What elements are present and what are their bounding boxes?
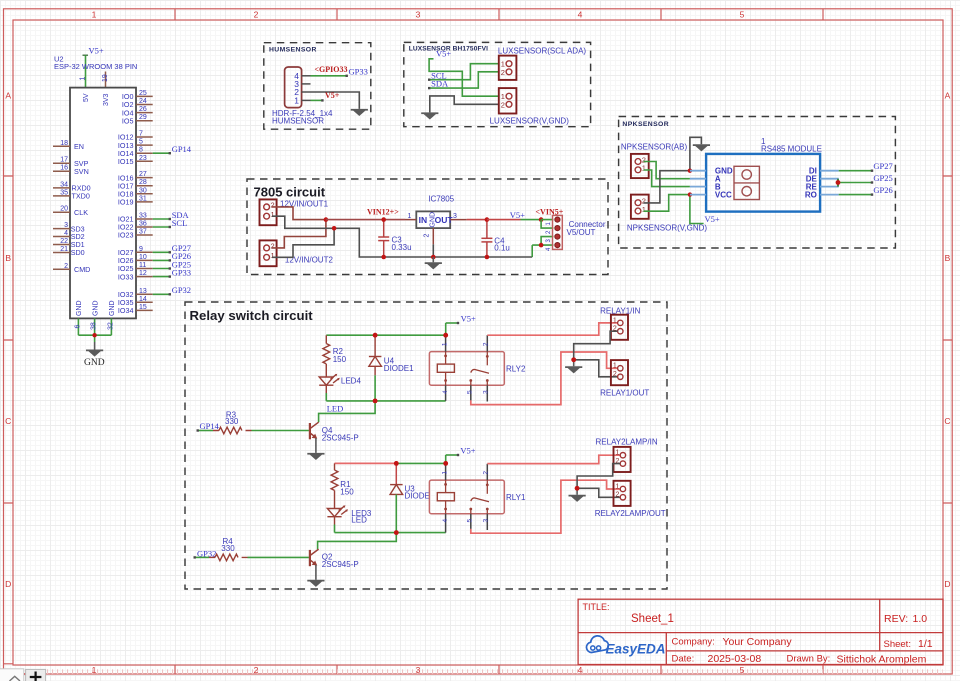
svg-text:8: 8 bbox=[139, 147, 143, 154]
svg-text:IO34: IO34 bbox=[118, 306, 134, 315]
svg-text:GP32: GP32 bbox=[172, 285, 191, 295]
gray wire IN pin2 to gnd junction bbox=[574, 331, 618, 360]
coil pin 4 bbox=[445, 501, 447, 514]
svg-text:Sheet_1: Sheet_1 bbox=[631, 613, 674, 625]
module right pin stubs bbox=[820, 171, 839, 195]
svg-text:26: 26 bbox=[139, 106, 147, 113]
ground symbol bbox=[576, 488, 578, 495]
wire LED4 to LED rail bbox=[325, 393, 327, 401]
svg-text:18: 18 bbox=[60, 140, 68, 147]
junction VCC row bbox=[688, 192, 692, 196]
connector NPKSENSOR(V,GND) bbox=[631, 195, 649, 219]
svg-text:IO15: IO15 bbox=[118, 157, 134, 166]
collector wire bbox=[319, 401, 376, 422]
svg-text:20: 20 bbox=[60, 206, 68, 213]
LED3 bbox=[327, 506, 347, 517]
transistor Q2 2SC945-P bbox=[310, 549, 319, 566]
svg-text:NPKSENSOR(V,GND): NPKSENSOR(V,GND) bbox=[627, 223, 708, 232]
svg-text:Date:: Date: bbox=[672, 654, 695, 665]
svg-text:HUMSENSOR: HUMSENSOR bbox=[272, 117, 324, 126]
svg-text:17: 17 bbox=[60, 157, 68, 164]
wire SCL to top conn pin1 bbox=[429, 64, 499, 80]
svg-text:2SC945-P: 2SC945-P bbox=[322, 433, 359, 442]
svg-text:LED4: LED4 bbox=[341, 377, 362, 386]
switch pin 3 bbox=[486, 508, 489, 511]
collector wire bbox=[318, 533, 397, 550]
svg-text:5V: 5V bbox=[83, 93, 90, 102]
svg-text:4: 4 bbox=[64, 230, 68, 237]
svg-text:22: 22 bbox=[60, 238, 68, 245]
wire C4 to V5 bbox=[487, 219, 521, 221]
svg-text:LUXSENSOR(V,GND): LUXSENSOR(V,GND) bbox=[490, 116, 570, 125]
svg-text:SVN: SVN bbox=[74, 167, 89, 176]
svg-text:GP25: GP25 bbox=[873, 173, 892, 183]
wire VGND pin1 to module VCC bbox=[644, 195, 690, 212]
svg-text:D: D bbox=[944, 579, 950, 589]
gray wire junction to OUT pin2 bbox=[574, 360, 618, 377]
right pins bbox=[136, 96, 153, 310]
svg-text:HUMSENSOR: HUMSENSOR bbox=[269, 46, 317, 53]
relay RLY2 bbox=[429, 335, 526, 401]
svg-text:SCL: SCL bbox=[172, 218, 188, 228]
svg-text:1: 1 bbox=[613, 363, 617, 370]
resistor R1 150 bbox=[331, 463, 338, 508]
module pin names bbox=[715, 167, 733, 200]
svg-text:Sheet:: Sheet: bbox=[884, 639, 911, 650]
svg-text:NPKSENSOR(AB): NPKSENSOR(AB) bbox=[621, 142, 688, 151]
svg-text:D: D bbox=[5, 579, 11, 589]
bottom connector LUXSENSOR(V,GND) bbox=[499, 88, 517, 113]
junction at conn V5/OUT pin1 bbox=[539, 217, 544, 222]
svg-text:4: 4 bbox=[442, 519, 449, 523]
RS485 module body bbox=[706, 154, 820, 212]
svg-text:12: 12 bbox=[139, 270, 147, 277]
bottom ruler dividers bbox=[175, 665, 823, 674]
connector 12V/IN/OUT2 bbox=[260, 240, 277, 266]
svg-text:GP14: GP14 bbox=[200, 421, 220, 431]
wire DI to GP27 bbox=[839, 170, 872, 172]
svg-text:GP33: GP33 bbox=[349, 66, 368, 76]
svg-text:RELAY2LAMP/OUT: RELAY2LAMP/OUT bbox=[595, 509, 666, 518]
svg-text:V5+: V5+ bbox=[705, 214, 720, 224]
svg-text:Drawn By:: Drawn By: bbox=[787, 654, 831, 665]
svg-text:13: 13 bbox=[139, 288, 147, 295]
junction re-marks bbox=[373, 333, 378, 338]
right pin numbers bbox=[139, 90, 147, 311]
wire conn1 pin1 to gnd rail bbox=[272, 216, 532, 257]
svg-text:10: 10 bbox=[139, 254, 147, 261]
svg-text:3: 3 bbox=[64, 222, 68, 229]
svg-text:V5/OUT: V5/OUT bbox=[567, 228, 596, 237]
svg-text:GP26: GP26 bbox=[873, 185, 892, 195]
right ruler dividers bbox=[943, 176, 952, 503]
svg-text:A: A bbox=[5, 91, 11, 101]
svg-text:RO: RO bbox=[805, 191, 817, 200]
bottom-left UI controls bbox=[0, 669, 46, 681]
switch pin 2 bbox=[486, 464, 488, 480]
dashed box bbox=[185, 302, 667, 589]
svg-text:3: 3 bbox=[482, 390, 489, 394]
svg-text:23: 23 bbox=[139, 155, 147, 162]
coil pin 1 bbox=[445, 463, 447, 480]
svg-text:2: 2 bbox=[482, 471, 489, 475]
dashed box bbox=[247, 179, 608, 275]
svg-text:Relay switch circuit: Relay switch circuit bbox=[190, 308, 314, 323]
svg-text:SDA: SDA bbox=[431, 79, 449, 89]
svg-text:LED: LED bbox=[351, 516, 367, 525]
svg-text:V5+: V5+ bbox=[510, 210, 525, 220]
svg-text:38: 38 bbox=[91, 322, 98, 330]
title block bbox=[578, 599, 943, 665]
svg-text:150: 150 bbox=[340, 487, 354, 496]
wire SDA to top conn pin2 bbox=[429, 72, 499, 88]
svg-text:1: 1 bbox=[294, 95, 299, 105]
svg-text:4: 4 bbox=[442, 390, 449, 394]
svg-text:GND: GND bbox=[92, 300, 99, 316]
wire IC pin3 to C4 bbox=[467, 219, 487, 221]
svg-text:21: 21 bbox=[60, 246, 68, 253]
wire RO to GP26 bbox=[839, 194, 872, 196]
svg-text:IO33: IO33 bbox=[118, 272, 134, 281]
top ruler dividers bbox=[175, 9, 823, 20]
red wire pin2 to RELAY2LAMP/IN bbox=[487, 455, 620, 463]
relay RLY1 bbox=[429, 463, 526, 532]
svg-text:1/1: 1/1 bbox=[918, 638, 933, 650]
svg-text:GP33: GP33 bbox=[172, 267, 191, 277]
svg-text:25: 25 bbox=[139, 90, 147, 97]
ground symbol bbox=[421, 112, 438, 119]
left ruler dividers bbox=[4, 176, 14, 664]
red wire pin5 to RELAY2LAMP/OUT bbox=[471, 480, 620, 533]
svg-text:LUXSENSOR(SCL ADA): LUXSENSOR(SCL ADA) bbox=[498, 47, 587, 56]
svg-text:330: 330 bbox=[221, 544, 235, 553]
wire conn1 pin2 to VIN rail bbox=[272, 207, 326, 220]
svg-text:V5+: V5+ bbox=[436, 48, 451, 58]
ground flag GND bbox=[84, 342, 105, 368]
IC pin 2 bbox=[432, 228, 434, 244]
svg-text:Company:: Company: bbox=[672, 637, 715, 648]
wire V5+ to bottom conn pin1 bbox=[429, 59, 499, 96]
svg-text:2: 2 bbox=[271, 242, 275, 251]
svg-text:TXD0: TXD0 bbox=[72, 192, 90, 201]
svg-text:1: 1 bbox=[616, 483, 620, 490]
EasyEDA logo bbox=[586, 636, 665, 657]
svg-text:30: 30 bbox=[139, 187, 147, 194]
svg-text:28: 28 bbox=[139, 179, 147, 186]
svg-text:<GPIO33: <GPIO33 bbox=[315, 65, 348, 74]
rotated pin digits bbox=[442, 471, 490, 523]
bottom rail bbox=[335, 532, 446, 534]
svg-text:330: 330 bbox=[225, 417, 239, 426]
svg-text:TITLE:: TITLE: bbox=[583, 602, 610, 612]
svg-text:A: A bbox=[945, 91, 951, 101]
svg-text:3: 3 bbox=[416, 665, 421, 675]
coil pin 1 bbox=[445, 335, 447, 351]
svg-text:1: 1 bbox=[92, 665, 97, 675]
svg-text:1.0: 1.0 bbox=[913, 613, 928, 625]
left pin names bbox=[71, 142, 91, 274]
svg-text:B: B bbox=[945, 253, 951, 263]
connector RELAY1/OUT bbox=[611, 360, 628, 385]
net labels bbox=[172, 144, 192, 295]
svg-text:1: 1 bbox=[613, 317, 617, 324]
capacitor C4 bbox=[481, 220, 492, 257]
svg-text:2: 2 bbox=[501, 68, 505, 77]
svg-text:3: 3 bbox=[482, 519, 489, 523]
svg-text:2: 2 bbox=[254, 665, 259, 675]
LED4 bbox=[319, 375, 339, 386]
gnd rail up to output connector pins 3,4 bbox=[531, 245, 533, 257]
base wire with resistor R3 330 bbox=[198, 430, 214, 432]
svg-text:2: 2 bbox=[271, 201, 275, 210]
svg-text:29: 29 bbox=[139, 114, 147, 121]
svg-text:RLY2: RLY2 bbox=[506, 364, 526, 373]
wire 5V pin bbox=[85, 55, 87, 87]
gnd rail junction bbox=[332, 226, 337, 231]
svg-text:V5+: V5+ bbox=[461, 313, 476, 323]
svg-text:2025-03-08: 2025-03-08 bbox=[708, 653, 762, 665]
svg-text:35: 35 bbox=[60, 189, 68, 196]
wire conn2 pin1 to gnd rail bbox=[272, 228, 334, 257]
svg-text:1: 1 bbox=[442, 471, 449, 475]
bottom ruler fine ticks bbox=[46, 669, 943, 674]
wire GND to bottom conn pin2 bbox=[430, 96, 499, 113]
svg-text:24: 24 bbox=[139, 98, 147, 105]
svg-text:1: 1 bbox=[642, 164, 646, 173]
switch pin 3 bbox=[486, 379, 489, 382]
emitter to ground bbox=[315, 565, 317, 580]
svg-text:27: 27 bbox=[139, 171, 147, 178]
junction GND row bbox=[688, 169, 692, 173]
svg-text:2: 2 bbox=[501, 100, 505, 109]
svg-text:RLY1: RLY1 bbox=[506, 493, 526, 502]
svg-text:7805 circuit: 7805 circuit bbox=[254, 184, 326, 199]
svg-text:1: 1 bbox=[616, 450, 620, 457]
VIN rail to IC bbox=[326, 219, 405, 221]
svg-text:VCC: VCC bbox=[715, 191, 732, 200]
svg-text:ESP-32 WROOM 38 PIN: ESP-32 WROOM 38 PIN bbox=[54, 62, 137, 71]
capacitor C3 bbox=[378, 220, 389, 257]
pin stubs bbox=[302, 76, 311, 101]
svg-text:IO23: IO23 bbox=[118, 231, 134, 240]
IC pin 1 bbox=[405, 219, 416, 221]
svg-text:150: 150 bbox=[333, 355, 347, 364]
gray wire junction to OUT pin2 bbox=[577, 488, 620, 497]
svg-text:5: 5 bbox=[467, 519, 474, 523]
IC pin 3 bbox=[450, 219, 467, 221]
svg-text:0.33u: 0.33u bbox=[392, 243, 412, 252]
svg-text:5: 5 bbox=[740, 665, 745, 675]
wire module GND up to ground bbox=[690, 137, 702, 170]
LED rail bbox=[326, 400, 445, 402]
svg-text:2: 2 bbox=[424, 234, 431, 238]
top connector LUXSENSOR(SCL ADA) bbox=[499, 56, 517, 80]
svg-text:VIN12+>: VIN12+> bbox=[367, 207, 399, 216]
switch pin 2 bbox=[486, 335, 488, 351]
diode U3 bbox=[395, 463, 397, 484]
wire pin4 to GP33 bbox=[311, 75, 347, 77]
wire pin2 to GND bbox=[311, 92, 360, 109]
wire DE/RE to GP25 bbox=[837, 179, 839, 187]
terminal symbol inside module bbox=[734, 166, 759, 199]
svg-text:LED: LED bbox=[327, 404, 344, 414]
svg-text:CLK: CLK bbox=[74, 208, 88, 217]
red wire pin5 to RELAY1/OUT bbox=[471, 352, 618, 405]
pin 19 (3V3) bbox=[105, 72, 107, 88]
svg-text:3V3: 3V3 bbox=[103, 93, 110, 106]
dashed box bbox=[264, 43, 371, 130]
wire LED3 to rail bbox=[334, 525, 336, 533]
VIN rail junction bbox=[324, 217, 329, 222]
connector NPKSENSOR(AB) bbox=[631, 154, 649, 178]
lever bbox=[471, 498, 489, 502]
emitter to ground bbox=[315, 438, 317, 453]
svg-text:NPKSENSOR: NPKSENSOR bbox=[622, 121, 669, 128]
ground symbol bbox=[573, 360, 575, 367]
coil pin 4 bbox=[445, 372, 447, 385]
svg-text:11: 11 bbox=[139, 262, 146, 269]
svg-text:C: C bbox=[5, 416, 11, 426]
svg-text:2: 2 bbox=[482, 342, 489, 346]
svg-text:IO5: IO5 bbox=[122, 116, 134, 125]
wire conn2 pin2 to VIN rail bbox=[272, 220, 326, 248]
bottom GND pins bbox=[78, 318, 111, 342]
base wire with resistor R4 330 bbox=[195, 556, 210, 558]
svg-text:14: 14 bbox=[139, 296, 147, 303]
svg-text:4: 4 bbox=[578, 10, 583, 20]
left pin numbers bbox=[60, 140, 68, 270]
svg-text:2: 2 bbox=[64, 263, 68, 270]
svg-text:Sittichok Aromplem: Sittichok Aromplem bbox=[837, 654, 927, 666]
svg-text:4: 4 bbox=[578, 665, 583, 675]
svg-text:REV:: REV: bbox=[884, 613, 908, 625]
svg-text:IN: IN bbox=[419, 215, 428, 225]
svg-text:16: 16 bbox=[60, 165, 68, 172]
svg-text:5: 5 bbox=[466, 390, 473, 394]
svg-text:1: 1 bbox=[442, 342, 449, 346]
svg-text:1: 1 bbox=[642, 205, 646, 214]
svg-text:2: 2 bbox=[254, 10, 259, 20]
svg-text:2: 2 bbox=[616, 492, 620, 499]
svg-text:Your Company: Your Company bbox=[723, 636, 793, 648]
svg-text:1: 1 bbox=[80, 77, 87, 81]
svg-text:V5+: V5+ bbox=[89, 46, 104, 56]
svg-text:34: 34 bbox=[60, 181, 68, 188]
ground symbol bbox=[351, 109, 368, 116]
connector HDR-F-2.54_1x4 bbox=[285, 67, 302, 108]
svg-text:V5+: V5+ bbox=[325, 91, 340, 100]
rotated pin digits bbox=[442, 342, 490, 394]
svg-text:1: 1 bbox=[271, 210, 275, 219]
ground symbol bbox=[693, 144, 710, 151]
svg-text:7: 7 bbox=[139, 131, 143, 138]
svg-text:GP14: GP14 bbox=[172, 144, 192, 154]
ground symbol under IC bbox=[432, 257, 434, 262]
V5 rail (green part) bbox=[396, 462, 445, 464]
svg-text:CMD: CMD bbox=[74, 265, 90, 274]
svg-text:EN: EN bbox=[74, 142, 84, 151]
svg-text:32: 32 bbox=[108, 322, 115, 330]
svg-text:GP27: GP27 bbox=[873, 161, 892, 171]
svg-text:DIODE: DIODE bbox=[405, 492, 430, 501]
svg-text:15: 15 bbox=[139, 304, 147, 311]
svg-text:GND: GND bbox=[84, 358, 105, 368]
svg-text:IO19: IO19 bbox=[118, 198, 134, 207]
wire AB pin2 to module A bbox=[644, 162, 690, 179]
net wires on right pins bbox=[153, 153, 170, 294]
svg-text:RELAY2LAMP/IN: RELAY2LAMP/IN bbox=[596, 438, 658, 447]
V5 rail (red part) bbox=[335, 462, 397, 464]
svg-text:SD0: SD0 bbox=[71, 248, 85, 257]
svg-text:GND: GND bbox=[109, 300, 116, 316]
svg-text:2SC945-P: 2SC945-P bbox=[322, 560, 359, 569]
chip body bbox=[70, 88, 136, 319]
green wires to output connector pins 1,2 bbox=[541, 220, 553, 229]
svg-text:33: 33 bbox=[139, 213, 147, 220]
svg-text:RELAY1/OUT: RELAY1/OUT bbox=[600, 388, 649, 397]
diode U4 bbox=[374, 335, 376, 356]
module left pin stubs bbox=[690, 171, 706, 195]
svg-text:C: C bbox=[944, 416, 950, 426]
svg-text:RS485 MODULE: RS485 MODULE bbox=[761, 144, 822, 153]
svg-text:1: 1 bbox=[408, 213, 412, 220]
dashed box bbox=[619, 117, 896, 249]
svg-text:19: 19 bbox=[102, 74, 109, 82]
V5 rail bbox=[326, 334, 445, 336]
wire VGND pin2 up to module GND bbox=[644, 171, 690, 203]
switch pin 5 bbox=[469, 508, 472, 511]
connector 12V/IN/OUT1 bbox=[260, 199, 277, 225]
svg-text:2: 2 bbox=[613, 371, 617, 378]
wire AB pin1 to module B bbox=[644, 170, 690, 187]
svg-text:EasyEDA: EasyEDA bbox=[606, 642, 666, 657]
switch pin 5 bbox=[469, 379, 472, 382]
svg-text:GND: GND bbox=[76, 300, 83, 316]
resistor R2 150 bbox=[323, 335, 330, 377]
right pin names bbox=[118, 92, 134, 315]
wire VCC down to V5+ flag bbox=[690, 195, 704, 224]
connector RELAY2LAMP/OUT bbox=[614, 481, 631, 506]
svg-text:9: 9 bbox=[139, 246, 143, 253]
svg-text:3: 3 bbox=[416, 10, 421, 20]
svg-text:GND: GND bbox=[429, 212, 436, 228]
svg-text:3: 3 bbox=[453, 213, 457, 220]
svg-text:V5+: V5+ bbox=[460, 445, 475, 455]
svg-text:5: 5 bbox=[139, 139, 143, 146]
wire pin1 V5+ bbox=[311, 99, 323, 101]
transistor Q4 2SC945-P bbox=[310, 422, 319, 439]
svg-text:1: 1 bbox=[92, 10, 97, 20]
svg-text:DIODE1: DIODE1 bbox=[384, 364, 414, 373]
svg-text:6: 6 bbox=[75, 325, 82, 329]
svg-text:37: 37 bbox=[139, 229, 147, 236]
svg-text:0.1u: 0.1u bbox=[494, 244, 510, 253]
gray wire IN pin2 to gnd junction bbox=[577, 464, 620, 489]
svg-text:36: 36 bbox=[139, 221, 147, 228]
power flag V5+ (top) bbox=[83, 46, 104, 56]
svg-text:IC7805: IC7805 bbox=[428, 195, 454, 204]
svg-text:31: 31 bbox=[139, 195, 147, 202]
svg-text:1: 1 bbox=[271, 251, 275, 260]
svg-text:B: B bbox=[5, 253, 11, 263]
junction bbox=[92, 333, 96, 337]
svg-text:5: 5 bbox=[740, 10, 745, 20]
dashed box bbox=[404, 42, 591, 126]
connector V5/OUT bbox=[553, 215, 563, 249]
left pins bbox=[53, 146, 70, 269]
red wire pin2 to RELAY1/IN bbox=[487, 323, 617, 335]
lever bbox=[471, 369, 489, 373]
